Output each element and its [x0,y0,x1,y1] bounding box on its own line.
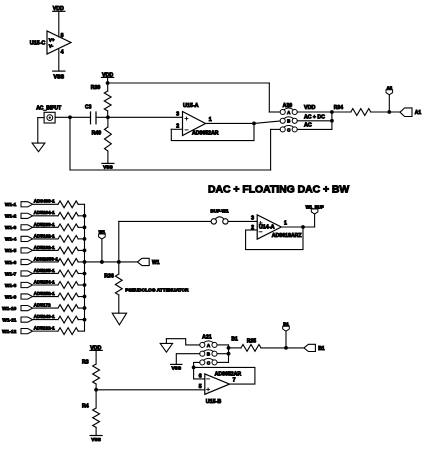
svg-text:W1-8: W1-8 [5,283,17,289]
svg-text:AD5232-1: AD5232-1 [34,245,56,250]
svg-text:W1-9: W1-9 [5,294,17,300]
svg-text:AD5235-1: AD5235-1 [34,268,56,273]
svg-text:BUF-W1: BUF-W1 [210,208,229,213]
svg-text:AC_INPUT: AC_INPUT [36,106,61,112]
svg-text:AD5243-1: AD5243-1 [34,314,56,319]
svg-text:4: 4 [61,50,64,56]
svg-text:AD5222-1: AD5222-1 [34,326,56,331]
svg-text:8: 8 [61,33,64,39]
svg-text:VSS: VSS [53,75,64,81]
svg-text:W1-10: W1-10 [2,306,16,312]
svg-text:AD8652AR: AD8652AR [215,372,242,378]
svg-text:W1-5: W1-5 [5,248,17,254]
svg-text:A1: A1 [415,110,422,116]
svg-text:R36: R36 [104,273,114,279]
svg-text:R4: R4 [82,403,89,409]
svg-text:V+: V+ [49,37,55,42]
svg-text:U15-A: U15-A [183,103,199,109]
svg-text:C3: C3 [85,104,92,110]
svg-text:AC: AC [304,123,312,129]
svg-text:R39: R39 [91,85,101,91]
svg-text:R35: R35 [247,339,256,345]
svg-text:W1-3: W1-3 [5,225,17,231]
svg-text:VSS: VSS [91,437,101,443]
svg-text:3: 3 [176,111,179,117]
svg-text:A21: A21 [202,335,212,341]
svg-text:W1-4: W1-4 [5,237,17,243]
svg-text:7: 7 [233,378,236,384]
svg-text:AD5162-1: AD5162-1 [34,233,56,238]
svg-text:R34: R34 [334,105,343,111]
svg-text:U14-A: U14-A [259,225,275,231]
svg-text:VSS: VSS [103,164,113,170]
svg-text:W1-1: W1-1 [5,202,17,208]
svg-text:U15-B: U15-B [206,399,222,405]
svg-text:W1_BUF: W1_BUF [306,205,324,210]
svg-text:2: 2 [176,124,179,130]
svg-text:A5: A5 [386,85,392,90]
svg-text:W1-12: W1-12 [2,329,16,335]
svg-text:AD8618ARZ: AD8618ARZ [272,233,303,239]
svg-text:W1-7: W1-7 [5,271,17,277]
svg-text:W1: W1 [152,260,160,266]
svg-text:PSEUDOLOG ATTENUATOR: PSEUDOLOG ATTENUATOR [125,288,189,294]
svg-text:W1-2: W1-2 [5,214,17,220]
svg-text:B: B [207,352,210,357]
svg-text:VDD: VDD [304,105,315,111]
svg-text:1: 1 [209,117,212,123]
svg-text:B1: B1 [283,322,289,327]
svg-text:AC + DC: AC + DC [304,114,325,120]
svg-text:V-: V- [49,44,54,49]
svg-text:DAC + FLOATING DAC + BW: DAC + FLOATING DAC + BW [208,185,349,196]
svg-text:AD5252-1: AD5252-1 [34,291,56,296]
svg-text:W1: W1 [99,230,106,235]
svg-text:3: 3 [251,215,254,221]
svg-text:B1: B1 [318,346,325,352]
svg-text:R3: R3 [82,359,89,365]
svg-text:U15-C: U15-C [30,40,46,46]
svg-text:W1-6: W1-6 [5,260,17,266]
svg-text:AD5204-1: AD5204-1 [34,210,56,215]
svg-text:R40: R40 [92,130,102,136]
svg-text:AD5233-1: AD5233-1 [34,222,56,227]
svg-text:1: 1 [284,220,287,226]
svg-text:AD8403-1: AD8403-1 [34,199,56,204]
svg-text:B: B [287,119,290,124]
svg-text:AD5254-1: AD5254-1 [34,279,56,284]
svg-text:5: 5 [199,384,202,390]
svg-text:W1-11: W1-11 [2,317,16,323]
svg-text:B1: B1 [231,336,238,342]
svg-text:ADN2850-1: ADN2850-1 [34,256,59,261]
svg-text:AD8652AR: AD8652AR [192,131,219,137]
svg-text:6: 6 [199,374,202,380]
svg-text:AD5172: AD5172 [34,302,51,307]
svg-text:VSS: VSS [171,366,181,372]
